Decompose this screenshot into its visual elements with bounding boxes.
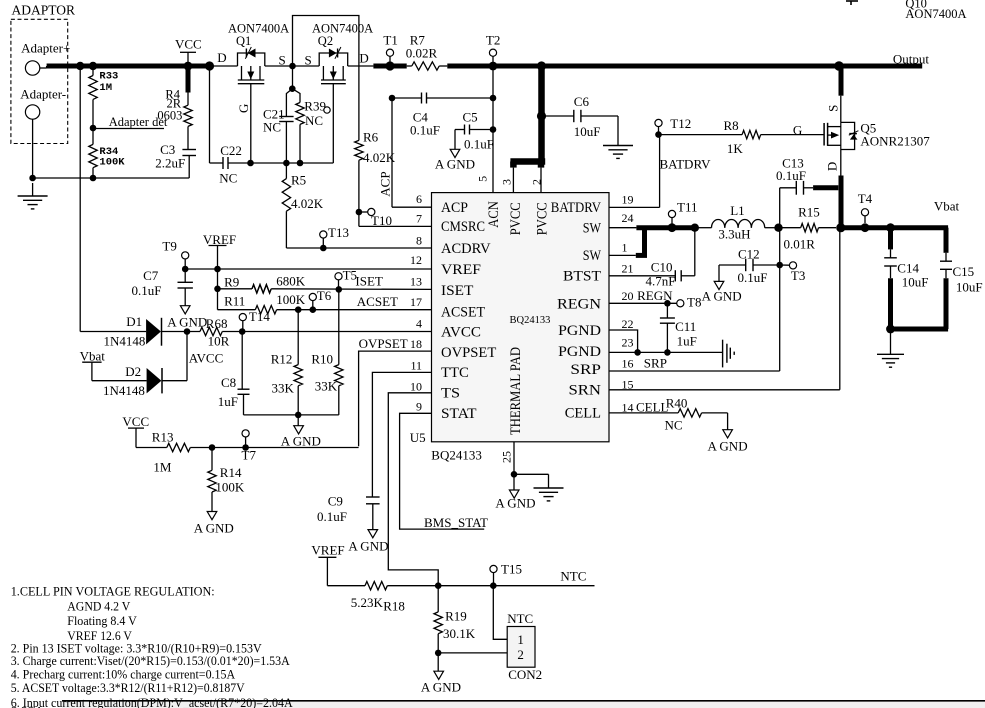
svg-text:C11: C11	[675, 319, 696, 334]
svg-text:11: 11	[410, 359, 422, 373]
svg-text:1uF: 1uF	[218, 394, 238, 409]
svg-text:0.1uF: 0.1uF	[738, 270, 768, 285]
svg-text:4.02K: 4.02K	[363, 150, 396, 165]
svg-text:C7: C7	[143, 268, 159, 283]
svg-text:1M: 1M	[153, 460, 172, 475]
svg-text:Vbat: Vbat	[934, 199, 960, 214]
svg-text:3: 3	[499, 179, 513, 185]
svg-text:R12: R12	[271, 352, 293, 367]
svg-text:24: 24	[622, 211, 634, 225]
svg-text:NC: NC	[665, 418, 683, 433]
svg-text:22: 22	[622, 317, 634, 331]
svg-text:Adapter-: Adapter-	[20, 87, 66, 102]
svg-text:0.1uF: 0.1uF	[132, 283, 162, 298]
svg-text:3.3uH: 3.3uH	[718, 227, 750, 242]
svg-text:T9: T9	[162, 239, 176, 254]
svg-text:CELL: CELL	[636, 399, 669, 414]
svg-text:10uF: 10uF	[956, 279, 983, 294]
svg-text:T15: T15	[501, 562, 522, 577]
svg-text:C5: C5	[463, 110, 478, 125]
svg-text:0.1uF: 0.1uF	[410, 123, 440, 138]
svg-text:AVCC: AVCC	[189, 350, 223, 365]
svg-text:0.1uF: 0.1uF	[317, 509, 347, 524]
svg-text:Output: Output	[893, 52, 930, 67]
svg-text:ACP: ACP	[441, 200, 468, 216]
svg-text:R14: R14	[220, 465, 242, 480]
svg-text:Vbat: Vbat	[80, 348, 106, 363]
svg-text:TS: TS	[441, 386, 460, 402]
svg-text:33K: 33K	[272, 380, 295, 395]
svg-text:9: 9	[416, 400, 422, 414]
svg-text:T1: T1	[383, 32, 397, 47]
svg-text:2.2uF: 2.2uF	[155, 156, 185, 171]
svg-text:R18: R18	[383, 599, 405, 614]
svg-text:OVPSET: OVPSET	[441, 345, 496, 361]
svg-text:R39: R39	[304, 99, 326, 114]
svg-text:T7: T7	[242, 448, 257, 463]
svg-text:C9: C9	[328, 494, 343, 509]
svg-text:21: 21	[622, 262, 634, 276]
svg-text:30.1K: 30.1K	[443, 626, 476, 641]
svg-text:BATDRV: BATDRV	[551, 200, 601, 216]
svg-text:REGN: REGN	[557, 296, 601, 312]
svg-text:R8: R8	[724, 118, 739, 133]
svg-text:BQ24133: BQ24133	[510, 315, 551, 326]
svg-text:A GND: A GND	[435, 156, 475, 171]
svg-text:BATDRV: BATDRV	[660, 156, 712, 171]
svg-text:10uF: 10uF	[574, 124, 601, 139]
svg-text:VCC: VCC	[175, 37, 202, 52]
svg-text:R9: R9	[224, 275, 239, 290]
svg-text:ACSET: ACSET	[357, 294, 398, 309]
svg-text:NTC: NTC	[507, 611, 533, 626]
svg-text:BTST: BTST	[563, 269, 601, 285]
svg-text:CON2: CON2	[508, 667, 542, 682]
svg-text:PVCC: PVCC	[535, 202, 551, 235]
svg-text:THERMAL PAD: THERMAL PAD	[508, 347, 524, 435]
svg-text:ADAPTOR: ADAPTOR	[12, 3, 76, 18]
svg-text:SRN: SRN	[569, 383, 602, 399]
svg-text:6: 6	[416, 192, 422, 206]
svg-text:D2: D2	[125, 364, 141, 379]
svg-text:1.CELL PIN VOLTAGE REGULATION:: 1.CELL PIN VOLTAGE REGULATION:	[11, 585, 215, 599]
svg-text:NC: NC	[219, 171, 237, 186]
svg-text:T4: T4	[858, 191, 873, 206]
svg-text:D: D	[217, 50, 226, 65]
svg-text:5. ACSET voltage:3.3*R12/(R11+: 5. ACSET voltage:3.3*R12/(R11+R12)=0.818…	[11, 681, 246, 695]
svg-text:BMS_STAT: BMS_STAT	[424, 515, 488, 530]
svg-text:CELL: CELL	[565, 406, 601, 422]
svg-text:ACDRV: ACDRV	[441, 241, 491, 257]
svg-text:T13: T13	[328, 225, 349, 240]
svg-text:T11: T11	[677, 200, 697, 215]
svg-text:R10: R10	[311, 352, 333, 367]
svg-text:VREF: VREF	[203, 232, 236, 247]
svg-text:8: 8	[416, 234, 422, 248]
svg-text:AGND 4.2 V: AGND 4.2 V	[67, 599, 131, 613]
svg-text:10: 10	[410, 380, 422, 394]
svg-text:L1: L1	[730, 203, 744, 218]
svg-text:T12: T12	[670, 116, 691, 131]
svg-text:0.1uF: 0.1uF	[776, 168, 806, 183]
svg-text:S: S	[826, 105, 841, 112]
svg-text:1N4148: 1N4148	[103, 383, 145, 398]
svg-text:A GND: A GND	[495, 496, 535, 511]
svg-text:R68: R68	[206, 316, 228, 331]
svg-text:AVCC: AVCC	[441, 324, 481, 340]
svg-text:18: 18	[410, 337, 422, 351]
svg-text:1N4148: 1N4148	[104, 334, 146, 349]
svg-text:A GND: A GND	[708, 438, 748, 453]
svg-text:23: 23	[622, 336, 634, 350]
svg-text:16: 16	[622, 356, 634, 370]
svg-text:U5: U5	[410, 430, 426, 445]
svg-text:3. Charge current:Viset/(20*R1: 3. Charge current:Viset/(20*R15)=0.153/(…	[11, 654, 291, 668]
svg-text:0.02R: 0.02R	[406, 46, 438, 61]
svg-text:ACN: ACN	[486, 201, 502, 228]
svg-text:100K: 100K	[99, 156, 125, 168]
svg-text:A GND: A GND	[194, 520, 234, 535]
svg-text:C15: C15	[953, 264, 975, 279]
svg-text:SRP: SRP	[644, 355, 667, 370]
svg-text:100K: 100K	[215, 480, 245, 495]
svg-text:25: 25	[500, 451, 514, 463]
svg-text:R11: R11	[224, 293, 245, 308]
svg-text:SW: SW	[583, 221, 602, 237]
svg-text:C10: C10	[651, 260, 673, 275]
svg-text:10R: 10R	[208, 334, 230, 349]
svg-text:14: 14	[622, 400, 634, 414]
svg-text:0603: 0603	[157, 109, 182, 123]
svg-text:NTC: NTC	[560, 569, 586, 584]
svg-text:C12: C12	[738, 246, 760, 261]
svg-text:C6: C6	[574, 94, 590, 109]
svg-text:T8: T8	[687, 294, 701, 309]
svg-text:A GND: A GND	[281, 434, 321, 449]
svg-text:ISET: ISET	[355, 273, 383, 288]
svg-text:PGND: PGND	[558, 323, 601, 339]
svg-text:2: 2	[517, 647, 524, 662]
svg-text:VREF: VREF	[311, 542, 344, 557]
svg-text:R13: R13	[152, 430, 174, 445]
svg-text:R6: R6	[363, 130, 379, 145]
svg-text:C8: C8	[221, 375, 236, 390]
svg-text:R19: R19	[445, 608, 467, 623]
svg-text:NC: NC	[263, 120, 281, 135]
svg-text:0.01R: 0.01R	[784, 237, 816, 252]
svg-text:Q2: Q2	[318, 34, 333, 48]
svg-text:0.1uF: 0.1uF	[464, 136, 494, 151]
svg-text:CMSRC: CMSRC	[441, 219, 485, 235]
svg-text:T6: T6	[317, 288, 332, 303]
svg-text:VCC: VCC	[122, 414, 149, 429]
svg-text:D: D	[359, 51, 368, 66]
svg-text:Q1: Q1	[236, 34, 251, 48]
svg-text:1: 1	[622, 240, 628, 254]
svg-text:R15: R15	[798, 205, 820, 220]
svg-text:R40: R40	[666, 395, 688, 410]
svg-text:R5: R5	[291, 173, 306, 188]
svg-text:4: 4	[416, 317, 422, 331]
svg-text:A GND: A GND	[421, 680, 461, 695]
svg-text:SW: SW	[583, 248, 602, 264]
svg-text:ACSET: ACSET	[441, 305, 485, 321]
svg-text:2: 2	[530, 179, 544, 185]
svg-text:5: 5	[475, 176, 489, 182]
svg-text:13: 13	[410, 275, 422, 289]
svg-text:T2: T2	[486, 32, 500, 47]
svg-text:R33: R33	[99, 71, 118, 83]
svg-text:20: 20	[622, 289, 634, 303]
svg-text:TTC: TTC	[441, 365, 469, 381]
svg-text:4.02K: 4.02K	[291, 196, 324, 211]
svg-text:ACP: ACP	[377, 171, 392, 196]
svg-text:6. Input current regulation(DP: 6. Input current regulation(DPM):V_acset…	[11, 696, 294, 708]
svg-text:A GND: A GND	[702, 289, 742, 304]
svg-text:D1: D1	[126, 314, 142, 329]
svg-text:BQ24133: BQ24133	[431, 448, 482, 463]
svg-text:4. Precharg current:10% charge: 4. Precharg current:10% charge current=0…	[11, 668, 236, 682]
svg-text:5.23K: 5.23K	[351, 595, 384, 610]
svg-text:A GND: A GND	[348, 539, 388, 554]
svg-text:S: S	[279, 53, 286, 68]
svg-text:STAT: STAT	[441, 406, 477, 422]
svg-text:T3: T3	[791, 268, 805, 283]
svg-text:Floating 8.4 V: Floating 8.4 V	[67, 614, 137, 628]
svg-text:17: 17	[410, 295, 422, 309]
svg-text:VREF: VREF	[441, 262, 481, 278]
svg-text:100K: 100K	[276, 292, 306, 307]
svg-text:19: 19	[622, 192, 634, 206]
svg-text:1: 1	[517, 632, 524, 647]
svg-text:1uF: 1uF	[677, 333, 697, 348]
svg-text:1M: 1M	[99, 82, 112, 94]
svg-text:S: S	[305, 53, 312, 68]
svg-text:G: G	[236, 104, 251, 113]
svg-text:AONR21307: AONR21307	[860, 134, 930, 149]
svg-text:T14: T14	[249, 309, 270, 324]
svg-text:AON7400A: AON7400A	[905, 7, 966, 21]
svg-text:1K: 1K	[727, 141, 744, 156]
svg-text:10uF: 10uF	[902, 274, 929, 289]
svg-text:C22: C22	[220, 143, 242, 158]
svg-text:G: G	[793, 123, 802, 138]
svg-text:12: 12	[410, 253, 422, 267]
svg-text:REGN: REGN	[637, 288, 673, 303]
svg-text:PGND: PGND	[558, 344, 601, 360]
svg-text:OVPSET: OVPSET	[359, 336, 408, 351]
svg-text:NC: NC	[305, 113, 323, 128]
svg-text:Adapter+: Adapter+	[21, 41, 70, 56]
svg-text:PVCC: PVCC	[508, 202, 524, 235]
svg-text:33K: 33K	[315, 379, 338, 394]
svg-text:680K: 680K	[276, 273, 306, 288]
svg-text:2.33A: 2.33A	[11, 704, 44, 708]
svg-text:ISET: ISET	[441, 283, 473, 299]
svg-text:4.7nF: 4.7nF	[646, 273, 676, 288]
svg-text:D: D	[824, 162, 839, 171]
svg-text:SRP: SRP	[570, 362, 601, 378]
svg-text:7: 7	[416, 212, 422, 226]
